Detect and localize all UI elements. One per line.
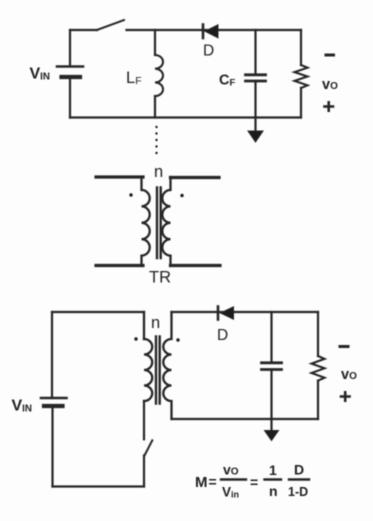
T2 primary top stub bbox=[143, 312, 145, 339]
T2 secondary winding bbox=[163, 312, 171, 419]
TR core bbox=[157, 188, 161, 259]
svg-text:1: 1 bbox=[269, 462, 277, 478]
fraction bar vo/Vin bbox=[221, 478, 246, 480]
svg-text:vO: vO bbox=[322, 77, 338, 93]
dotted link line bbox=[155, 126, 157, 154]
battery VIN (top circuit) bbox=[57, 67, 83, 78]
TR secondary winding bbox=[162, 177, 170, 266]
svg-text:LF: LF bbox=[126, 69, 142, 87]
phase dot right (T2) bbox=[176, 338, 179, 341]
svg-text:n: n bbox=[151, 314, 160, 332]
svg-text:n: n bbox=[269, 483, 278, 499]
svg-text:VIN: VIN bbox=[12, 398, 32, 415]
switch S2 (open blade) bbox=[145, 440, 153, 455]
wire resistor top stub (bottom circuit) bbox=[317, 312, 319, 356]
wire left vertical (bottom circuit) bbox=[51, 312, 53, 398]
wire resistor bottom stub (bottom circuit) bbox=[317, 381, 319, 419]
fraction bar 1/n bbox=[265, 478, 282, 480]
wire top (switch to right corner through diode and nodes) bbox=[127, 29, 302, 31]
capacitor C (bottom circuit) bbox=[262, 363, 282, 370]
label minus (bottom circuit) bbox=[340, 345, 348, 348]
wire capacitor top stub bbox=[254, 30, 256, 73]
svg-text:M: M bbox=[195, 474, 208, 491]
inductor LF bbox=[155, 55, 163, 96]
svg-text:D: D bbox=[294, 462, 304, 478]
svg-text:=: = bbox=[209, 474, 217, 490]
wire below switch bbox=[143, 456, 145, 487]
wire bottom (top circuit) bbox=[70, 116, 301, 118]
phase dot left (TR) bbox=[129, 193, 132, 196]
wire top (bottom circuit primary) bbox=[52, 311, 144, 313]
wire bottom (bottom circuit secondary) bbox=[172, 418, 319, 420]
resistor RL (top circuit) bbox=[295, 65, 308, 88]
svg-text:vO: vO bbox=[223, 462, 239, 478]
phase dot left (T2) bbox=[134, 337, 137, 340]
svg-text:n: n bbox=[154, 163, 163, 181]
wire capacitor bottom stub bbox=[254, 83, 256, 118]
wire resistor bottom stub bbox=[300, 88, 302, 118]
wire TR bottom-left lead bbox=[96, 264, 143, 267]
wire inductor bottom stub bbox=[154, 96, 156, 118]
svg-text:D: D bbox=[217, 327, 228, 344]
wire TR bottom-right lead bbox=[171, 264, 221, 267]
label plus (top circuit) bbox=[325, 102, 334, 110]
wire TR top-right lead bbox=[171, 176, 220, 179]
capacitor CF bbox=[246, 75, 266, 81]
svg-text:1-D: 1-D bbox=[288, 485, 308, 499]
switch S1 (open blade) bbox=[97, 20, 124, 30]
phase dot right (TR) bbox=[180, 194, 183, 197]
wire top-left (Vin+ to switch) bbox=[70, 29, 97, 31]
T2 primary winding bbox=[144, 339, 152, 401]
svg-text:TR: TR bbox=[149, 269, 171, 287]
wire below battery bbox=[69, 77, 71, 118]
svg-text:D: D bbox=[203, 43, 214, 60]
svg-text:VIN: VIN bbox=[30, 66, 50, 83]
wire inductor top stub bbox=[154, 30, 156, 55]
svg-text:Vin: Vin bbox=[222, 485, 239, 500]
wire TR top-left lead bbox=[96, 175, 143, 178]
wire resistor top stub bbox=[300, 30, 302, 65]
label plus (bottom circuit) bbox=[341, 392, 350, 400]
resistor RL (bottom circuit) bbox=[312, 356, 325, 381]
fraction bar D/(1-D) bbox=[289, 478, 309, 480]
battery VIN (bottom circuit) bbox=[41, 398, 67, 406]
diode D (bottom circuit) bbox=[218, 307, 234, 320]
svg-text:CF: CF bbox=[219, 73, 235, 89]
T2 primary bottom stub bbox=[143, 401, 145, 439]
label minus (top circuit) bbox=[326, 54, 334, 57]
wire capacitor bottom stub (bottom circuit) bbox=[270, 371, 272, 419]
wire capacitor top stub (bottom circuit) bbox=[270, 312, 272, 362]
wire top (bottom circuit secondary) bbox=[172, 311, 319, 313]
T2 core bbox=[156, 337, 160, 404]
ground (bottom circuit) bbox=[265, 419, 279, 441]
TR primary winding bbox=[142, 177, 150, 266]
svg-text:vO: vO bbox=[341, 367, 357, 383]
diode D (top circuit) bbox=[203, 25, 218, 39]
ground (top circuit) bbox=[248, 118, 263, 143]
wire bottom (bottom circuit) bbox=[53, 485, 145, 487]
wire below battery (bottom circuit) bbox=[51, 406, 53, 487]
wire Vin left vertical bbox=[69, 30, 71, 66]
svg-text:=: = bbox=[250, 474, 258, 490]
